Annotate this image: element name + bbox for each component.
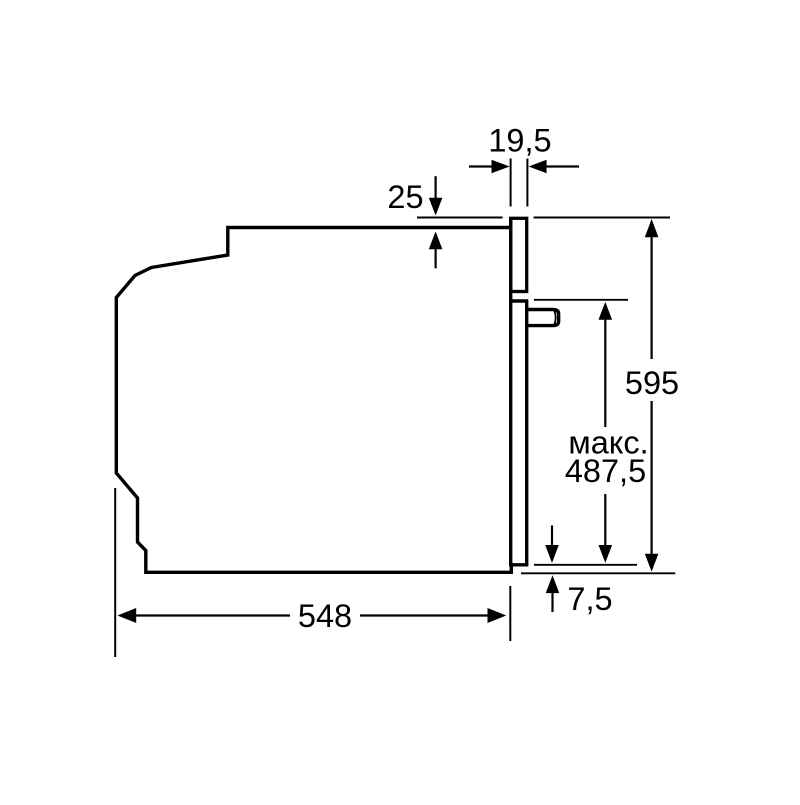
dimension 19,5 left arrow: [469, 160, 510, 174]
dimension 19,5 extension line right: [526, 159, 528, 207]
svg-text:25: 25: [387, 179, 423, 215]
oven front wall: [509, 218, 512, 565]
svg-text:595: 595: [625, 365, 679, 401]
dimension 25 down arrow: [429, 176, 443, 215]
svg-text:548: 548: [298, 598, 352, 634]
oven body outline: [116, 228, 511, 573]
step below frame: [509, 299, 528, 302]
dimension 595 top extension line: [534, 217, 671, 219]
svg-text:487,5: 487,5: [565, 453, 646, 489]
door handle knob: [528, 310, 559, 326]
dimension 7,5 reference line (door bottom level): [534, 564, 637, 566]
door bottom edge: [509, 563, 528, 566]
dimension 548 line with arrows: [118, 608, 507, 623]
svg-text:19,5: 19,5: [488, 123, 551, 159]
svg-text:7,5: 7,5: [567, 581, 612, 617]
dimension 548 left extension line: [114, 488, 116, 657]
dimension 487,5 top extension line: [534, 299, 628, 301]
dimension 548 right extension line: [509, 586, 511, 641]
dimension 25 up arrow: [429, 232, 443, 269]
knob face rim line: [554, 311, 555, 324]
dimension 595 bottom extension line: [521, 572, 675, 574]
dimension 19,5 extension line left: [510, 159, 512, 207]
front frame (fascia): [511, 218, 527, 291]
dimension макс. 487,5 label: [565, 425, 649, 490]
dimension 595 line with arrows: [645, 219, 659, 572]
door front face: [525, 301, 528, 565]
dimension 7,5 down arrow: [545, 526, 559, 563]
dimension 487,5 line with arrows: [599, 302, 613, 563]
dimension 7,5 up arrow: [546, 575, 560, 612]
dimension 25 reference line (frame top level): [417, 217, 503, 219]
dimension 19,5 right arrow: [529, 160, 579, 174]
